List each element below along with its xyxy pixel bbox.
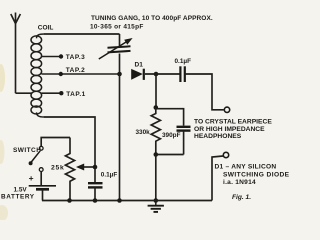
- tap TAP.1: [42, 91, 86, 98]
- svg-text:TAP.1: TAP.1: [66, 91, 86, 98]
- node junction RC top: [154, 105, 159, 110]
- svg-text:390pF: 390pF: [162, 132, 181, 139]
- wire T2 to rail: [212, 156, 223, 201]
- svg-text:i.a. 1N914: i.a. 1N914: [223, 179, 256, 186]
- node junction C3 bottom: [93, 198, 98, 203]
- battery B1 1.5V: [1, 171, 56, 200]
- terminal T2 earpiece return: [223, 152, 228, 157]
- wire coil top to tuning cap: [44, 33, 120, 35]
- ground symbol: [148, 201, 164, 212]
- wire RC bottom join: [156, 154, 184, 156]
- node junction RC bottom: [154, 152, 159, 157]
- coil L1: [31, 34, 44, 117]
- antenna ANT: [11, 13, 21, 94]
- svg-text:SWITCHING DIODE: SWITCHING DIODE: [223, 171, 290, 178]
- wire C1 to terminal T1: [185, 74, 224, 110]
- svg-text:D1: D1: [135, 61, 144, 68]
- tap TAP.2: [42, 67, 120, 76]
- switch S1: [13, 138, 70, 172]
- svg-text:+: +: [29, 173, 34, 183]
- svg-text:0.1µF: 0.1µF: [175, 58, 192, 65]
- wire antenna to TAP.1: [16, 92, 33, 94]
- wire RC bottom to rail: [155, 155, 157, 201]
- svg-text:OR HIGH IMPEDANCE: OR HIGH IMPEDANCE: [194, 126, 265, 133]
- wire junction down to ground rail: [119, 74, 121, 201]
- svg-text:COIL: COIL: [38, 24, 54, 31]
- node junction tap2 branch bottom: [117, 198, 122, 203]
- svg-text:10·365 or 415pF: 10·365 or 415pF: [90, 23, 144, 30]
- wire junction to 390pF top: [156, 109, 184, 126]
- svg-text:BATTERY: BATTERY: [1, 193, 35, 200]
- pot wiper arrow: [76, 164, 95, 171]
- svg-text:1.5V: 1.5V: [14, 186, 28, 193]
- diode D1: [131, 61, 144, 80]
- tap TAP.3: [42, 54, 86, 61]
- wire coil bottom to branch: [44, 117, 95, 183]
- resistor R1 330k: [136, 108, 161, 155]
- svg-text:TAP.2: TAP.2: [66, 67, 86, 74]
- ground rail wire: [42, 200, 212, 202]
- svg-text:TO CRYSTAL EARPIECE: TO CRYSTAL EARPIECE: [194, 118, 272, 125]
- node junction TAP.2 / tuning cap: [117, 72, 122, 77]
- capacitor C1 0.1uF coupling: [145, 58, 191, 82]
- svg-text:HEADPHONES: HEADPHONES: [194, 133, 242, 140]
- node junction wiper / coil bottom: [93, 165, 98, 170]
- svg-text:Fig. 1.: Fig. 1.: [232, 194, 251, 201]
- svg-text:D1 – ANY SILICON: D1 – ANY SILICON: [215, 163, 277, 170]
- terminal T1 earpiece: [224, 107, 229, 112]
- svg-text:TUNING GANG, 10 TO 400pF APPRO: TUNING GANG, 10 TO 400pF APPROX.: [91, 15, 213, 22]
- label earpiece text: [194, 118, 272, 140]
- node junction rail at ground: [154, 198, 159, 203]
- svg-text:TAP.3: TAP.3: [66, 54, 86, 61]
- svg-text:SWITCH: SWITCH: [13, 147, 41, 154]
- node junction D1 cathode: [154, 72, 159, 77]
- potentiometer R2 25k: [51, 138, 75, 201]
- svg-text:25k: 25k: [51, 164, 64, 171]
- wire D1 junction down to RC: [155, 74, 157, 108]
- node junction pot bottom: [67, 198, 72, 203]
- svg-text:330k: 330k: [136, 129, 151, 136]
- tuning gang variable capacitor VC1: [99, 34, 133, 74]
- label D1 note: [215, 163, 290, 186]
- capacitor C3 0.1uF bypass: [88, 171, 117, 200]
- svg-text:0.1µF: 0.1µF: [101, 171, 118, 178]
- capacitor C2 390pF: [162, 127, 191, 155]
